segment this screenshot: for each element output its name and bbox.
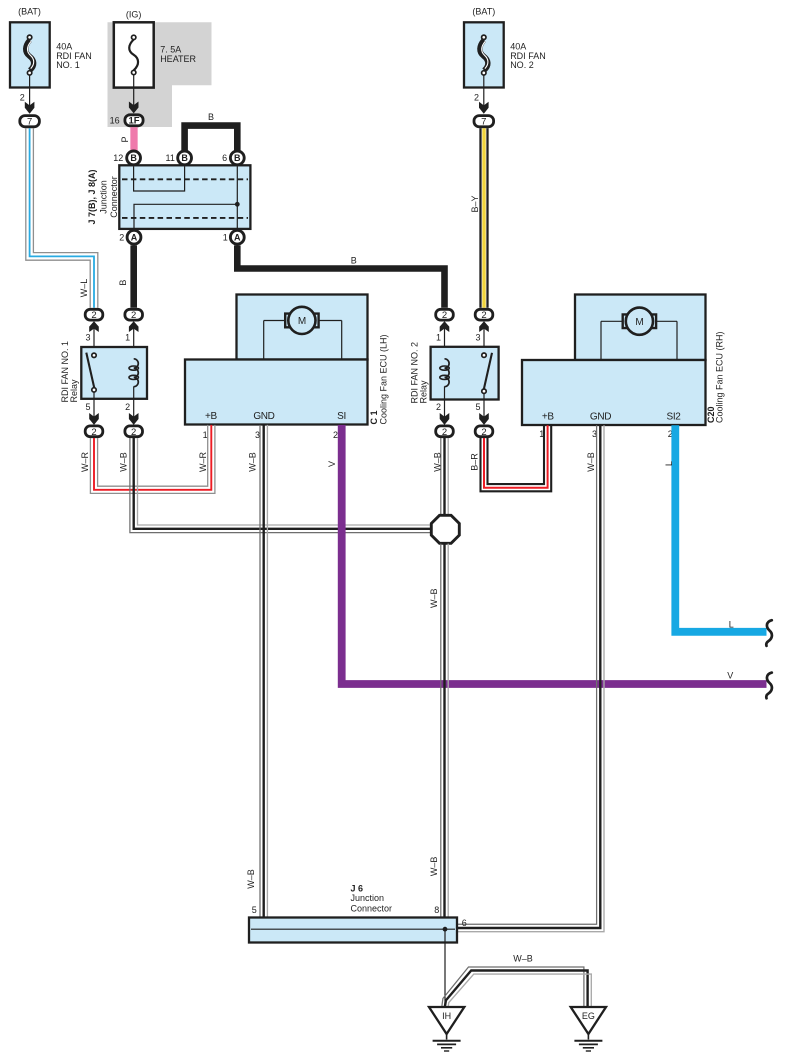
- svg-text:7: 7: [27, 117, 32, 128]
- fuse 40A RDI FAN NO.1 (BAT): [10, 7, 50, 88]
- svg-text:M: M: [635, 317, 643, 328]
- svg-text:V: V: [327, 461, 337, 467]
- svg-text:B: B: [118, 280, 128, 286]
- wire relay1 pin2 with arrow, pin 2: [125, 386, 138, 425]
- wire W-R (relay1 pin5 to C1 +B): [80, 425, 215, 494]
- node B11: [166, 151, 192, 165]
- svg-text:W–B: W–B: [433, 452, 443, 472]
- svg-text:L: L: [729, 619, 734, 629]
- svg-text:11: 11: [166, 153, 175, 163]
- wire W-L: [26, 128, 98, 307]
- svg-text:L: L: [664, 461, 674, 466]
- wire relay1 pin5 with arrow, pin 5: [85, 392, 98, 425]
- wire L (C20 SI2, blue): [664, 425, 766, 632]
- svg-text:GND: GND: [590, 412, 611, 423]
- svg-text:2: 2: [442, 427, 447, 438]
- svg-text:1: 1: [223, 233, 228, 243]
- svg-text:Relay: Relay: [69, 379, 79, 403]
- node B6: [222, 151, 244, 165]
- wire B loop between B11 and B6: [185, 112, 238, 151]
- label C1 Cooling Fan ECU (LH): [369, 334, 389, 424]
- svg-text:6: 6: [222, 153, 227, 163]
- svg-text:P: P: [120, 136, 130, 142]
- svg-text:12: 12: [113, 153, 123, 163]
- svg-text:W–B: W–B: [429, 589, 439, 609]
- node 2 (below relay2 pin2): [436, 426, 454, 438]
- svg-text:+B: +B: [205, 411, 217, 422]
- svg-text:A: A: [234, 233, 241, 243]
- motor M (LH): [264, 307, 342, 359]
- svg-text:2: 2: [474, 92, 479, 102]
- svg-text:7: 7: [481, 117, 486, 128]
- svg-text:6: 6: [462, 918, 467, 928]
- cooling fan ECU (RH) C20 body: [522, 360, 706, 425]
- svg-text:1: 1: [203, 430, 208, 440]
- node 2 (below relay1 pin5): [85, 426, 103, 438]
- svg-text:NO. 1: NO. 1: [56, 60, 80, 70]
- motor M (RH): [601, 308, 677, 360]
- wire W-B (C20 GND to J6 pin6): [458, 425, 605, 931]
- wire W-B (relay2 pin2 down to octagon): [433, 438, 449, 515]
- svg-text:EG: EG: [582, 1011, 595, 1021]
- svg-text:B: B: [234, 153, 241, 163]
- svg-text:SI2: SI2: [667, 412, 682, 423]
- cooling fan ECU (LH) C1 motor housing: [237, 295, 368, 360]
- svg-text:3: 3: [255, 430, 260, 440]
- svg-text:B–Y: B–Y: [470, 195, 480, 212]
- label RDI FAN NO.1 Relay: [60, 341, 79, 403]
- svg-text:1: 1: [436, 332, 441, 342]
- connector 1F, pin 16: [110, 115, 144, 127]
- svg-text:B: B: [351, 256, 357, 266]
- label 40A RDI FAN NO.2: [510, 42, 546, 70]
- svg-text:(BAT): (BAT): [18, 7, 41, 17]
- svg-text:2: 2: [481, 310, 486, 321]
- svg-text:Relay: Relay: [418, 380, 428, 404]
- wire P (pink): [120, 127, 134, 150]
- svg-text:B: B: [130, 153, 137, 163]
- svg-text:5: 5: [85, 402, 90, 412]
- svg-text:2: 2: [436, 402, 441, 412]
- ground IH: [429, 1007, 464, 1051]
- break symbol (V wire): [766, 673, 772, 699]
- svg-text:2: 2: [481, 427, 486, 438]
- wire relay2 pin3 with arrow, pin 3: [475, 321, 488, 355]
- wire relay2 pin2 with arrow, pin 2: [436, 386, 449, 425]
- svg-text:B–R: B–R: [470, 453, 480, 471]
- node 2 (above relay2 pin3): [475, 309, 493, 321]
- wire fuse2 to connector 1F: [129, 75, 139, 114]
- svg-text:2: 2: [20, 92, 25, 102]
- svg-text:2: 2: [131, 427, 136, 438]
- svg-text:3: 3: [475, 332, 480, 342]
- relay RDI FAN NO.2: [431, 347, 499, 400]
- svg-text:Junction: Junction: [98, 180, 108, 214]
- node A2: [119, 230, 141, 244]
- wire B-R (relay2 pin5 to C20 +B): [470, 425, 552, 491]
- svg-text:2: 2: [131, 310, 136, 321]
- svg-text:W–B: W–B: [429, 857, 439, 877]
- label J6 Junction Connector: [351, 883, 393, 913]
- ground EG: [571, 1007, 606, 1051]
- svg-text:2: 2: [91, 427, 96, 438]
- svg-text:B: B: [208, 112, 214, 122]
- relay RDI FAN NO.1: [81, 347, 147, 399]
- fuse 7.5A HEATER (IG): [114, 10, 154, 88]
- svg-text:W–R: W–R: [198, 452, 208, 473]
- node B12: [113, 151, 140, 165]
- svg-text:Connector: Connector: [109, 176, 119, 218]
- wire W-B (relay1 pin2 to junction octagon): [119, 438, 434, 533]
- wire W-B (octagon to J6 pin8): [429, 544, 448, 918]
- svg-text:2: 2: [333, 430, 338, 440]
- svg-text:M: M: [298, 316, 306, 327]
- pin numbers C20: [539, 429, 673, 439]
- svg-text:Junction: Junction: [351, 893, 385, 903]
- svg-text:W–B: W–B: [247, 452, 257, 472]
- svg-text:W–B: W–B: [119, 452, 129, 472]
- svg-text:8: 8: [434, 905, 439, 915]
- wire relay1 pin1 with arrow, pin 1: [125, 321, 138, 359]
- label 40A RDI FAN NO.1: [56, 42, 92, 70]
- junction connector J6: [249, 918, 457, 943]
- svg-text:J 7(B), J 8(A): J 7(B), J 8(A): [87, 169, 97, 224]
- svg-text:J 6: J 6: [351, 883, 364, 893]
- svg-text:W–B: W–B: [513, 954, 533, 964]
- wire J6 to ground IH: [444, 929, 446, 1007]
- svg-text:5: 5: [475, 402, 480, 412]
- svg-text:A: A: [131, 233, 138, 243]
- svg-text:W–L: W–L: [79, 279, 89, 298]
- svg-text:Connector: Connector: [351, 903, 393, 913]
- fuse 40A RDI FAN NO.2 (BAT): [464, 7, 504, 88]
- wire relay2 pin1 with arrow, pin 1: [436, 321, 449, 359]
- svg-text:1: 1: [125, 332, 130, 342]
- svg-text:W–R: W–R: [80, 452, 90, 473]
- svg-text:2: 2: [119, 233, 124, 243]
- connector 7 (fuse3): [474, 116, 494, 128]
- wire fuse3 to connector, pin 2: [474, 75, 489, 114]
- wire W-B (C1 GND to J6 pin5): [246, 425, 267, 917]
- pin numbers J6: [252, 905, 467, 928]
- connector 7 (fuse1): [20, 116, 40, 128]
- junction connector J7(B) J8(A): [119, 165, 250, 229]
- wire relay1 pin3 with arrow, pin 3: [85, 321, 98, 355]
- svg-text:V: V: [727, 670, 733, 680]
- svg-text:2: 2: [125, 402, 130, 412]
- node 2 (below relay1 pin2): [125, 426, 143, 438]
- gray background region (IG circuit): [108, 22, 212, 127]
- junction octagon: [431, 515, 459, 543]
- svg-text:HEATER: HEATER: [160, 54, 196, 64]
- svg-text:GND: GND: [253, 411, 274, 422]
- svg-text:W–B: W–B: [586, 452, 596, 472]
- wire B from A2: [118, 245, 134, 307]
- svg-text:(IG): (IG): [126, 10, 142, 20]
- label RDI FAN NO.2 Relay: [410, 342, 429, 404]
- svg-text:IH: IH: [442, 1011, 451, 1021]
- node A1: [223, 230, 245, 244]
- svg-text:NO. 2: NO. 2: [510, 60, 534, 70]
- svg-text:B: B: [181, 153, 188, 163]
- svg-text:Cooling Fan ECU (RH): Cooling Fan ECU (RH): [714, 331, 724, 423]
- wire fuse1 to connector, pin 2: [20, 75, 35, 114]
- wire V (C1 SI, purple): [327, 425, 766, 684]
- node 2 (below relay2 pin5): [475, 426, 493, 438]
- svg-text:+B: +B: [542, 412, 554, 423]
- svg-text:2: 2: [442, 310, 447, 321]
- label 7.5A HEATER: [160, 45, 196, 64]
- node 2 (above relay1 pin3): [85, 309, 103, 321]
- wire B from A1: [237, 245, 444, 307]
- wire W-B (to ground EG): [442, 954, 591, 1007]
- svg-text:3: 3: [85, 332, 90, 342]
- break symbol (L wire): [766, 620, 772, 646]
- cooling fan ECU (RH) C20 motor housing: [575, 295, 706, 361]
- svg-text:1F: 1F: [128, 116, 139, 127]
- cooling fan ECU (LH) C1 body: [185, 360, 368, 425]
- svg-text:(BAT): (BAT): [472, 7, 495, 17]
- wire relay2 pin5 with arrow, pin 5: [475, 393, 488, 425]
- svg-text:5: 5: [252, 905, 257, 915]
- svg-text:Cooling Fan ECU (LH): Cooling Fan ECU (LH): [379, 334, 389, 424]
- svg-text:C 1: C 1: [369, 410, 379, 424]
- pin numbers C1: [203, 430, 338, 440]
- svg-text:W–B: W–B: [246, 869, 256, 889]
- wire B-Y: [470, 128, 488, 307]
- svg-text:16: 16: [110, 116, 120, 126]
- svg-text:2: 2: [91, 310, 96, 321]
- node 2 (above relay2 pin1): [436, 309, 454, 321]
- node 2 (above relay1 pin1): [125, 309, 143, 321]
- svg-text:SI: SI: [337, 411, 346, 422]
- label C20 Cooling Fan ECU (RH): [706, 331, 725, 423]
- label J7(B), J8(A) Junction Connector: [87, 169, 119, 224]
